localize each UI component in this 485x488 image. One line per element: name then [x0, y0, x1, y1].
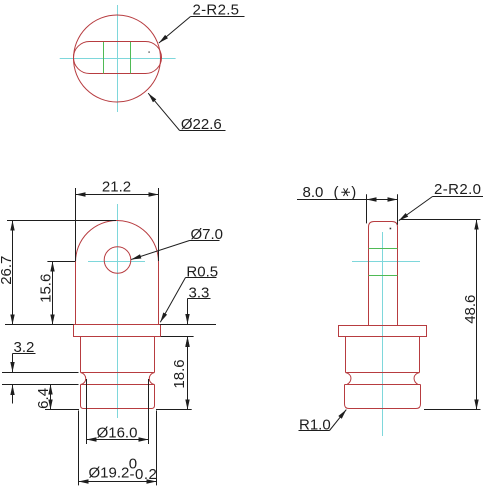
svg-text:Ø19.2: Ø19.2	[89, 464, 130, 481]
top view slot outline	[74, 42, 162, 74]
groove extension lines left	[2, 373, 79, 385]
front view body outline	[74, 221, 161, 409]
front view centerline vertical	[117, 204, 119, 418]
bottom extension right	[156, 409, 192, 411]
dim 8.0 (*)	[297, 184, 398, 225]
label 2-R2.5 with leader	[159, 1, 245, 43]
top view centerline horizontal	[60, 58, 176, 60]
dim 3.2	[13, 339, 36, 404]
front view hole Ø7.0	[104, 247, 131, 274]
svg-text:6.4: 6.4	[35, 388, 52, 409]
side view green line lower	[369, 275, 398, 277]
side view centerline vertical	[382, 232, 384, 436]
bottom extension left	[45, 409, 79, 411]
svg-text:2-R2.0: 2-R2.0	[434, 181, 481, 198]
svg-text:(: (	[334, 184, 339, 201]
dim Ø16.0	[87, 379, 149, 444]
front view centerline horizontal	[88, 261, 145, 263]
point mark (top view)	[148, 51, 149, 52]
top view centerline vertical	[117, 5, 119, 112]
flange bottom extension right	[161, 336, 194, 338]
point mark (side view)	[390, 228, 392, 230]
flange top extension right	[160, 324, 216, 326]
dim 15.6	[38, 262, 76, 325]
dim 6.4	[35, 385, 52, 410]
svg-text:15.6: 15.6	[38, 274, 55, 303]
side view green line upper	[369, 248, 398, 250]
svg-text:48.6: 48.6	[462, 295, 479, 324]
svg-text:2-R2.5: 2-R2.5	[193, 1, 240, 18]
top view slot green line right	[130, 42, 132, 74]
leader R0.5	[160, 263, 218, 322]
svg-text:26.7: 26.7	[0, 256, 15, 285]
top view circle Ø22.6	[74, 15, 161, 102]
label Ø22.6 with leader	[148, 93, 225, 133]
leader Ø7.0	[131, 226, 223, 259]
dim 21.2	[76, 179, 159, 262]
leader R1.0	[299, 410, 347, 434]
svg-text:18.6: 18.6	[171, 359, 188, 388]
svg-text:-0.2: -0.2	[130, 466, 158, 483]
svg-text:Ø16.0: Ø16.0	[97, 424, 138, 441]
label 2-R2.0 with leader	[399, 181, 483, 221]
top view slot green line left	[103, 42, 105, 74]
dim Ø19.2 0/-0.2	[79, 411, 158, 486]
side view outline	[339, 222, 427, 409]
dim 48.6	[400, 220, 481, 410]
dim 26.7	[0, 221, 116, 325]
svg-text:8.0: 8.0	[303, 184, 324, 201]
svg-text:): )	[351, 184, 356, 201]
dim 18.6	[171, 337, 188, 410]
side view centerline horizontal	[352, 261, 420, 263]
flange top extension left	[5, 324, 74, 326]
dim 3.3	[188, 284, 211, 357]
svg-text:21.2: 21.2	[102, 179, 131, 196]
